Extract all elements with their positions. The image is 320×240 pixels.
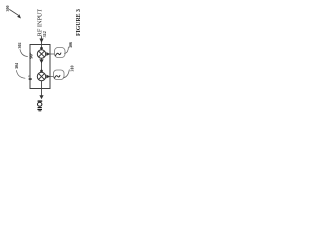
leader curve 304 [17,71,26,79]
RF input wire [41,37,43,46]
waveform box lower output [54,70,65,80]
M2 output arrowhead [46,75,50,79]
svg-text:FIGURE 3: FIGURE 3 [76,9,82,36]
leader curve 302 [20,50,28,57]
waveform squiggle lower [55,75,60,78]
waveform squiggle upper [56,53,61,56]
mixer block outline [30,45,50,89]
LO output arrowhead [39,95,43,99]
svg-text:300: 300 [5,6,10,12]
leader to numeral 310 [64,70,70,78]
leader to numeral 306 [65,47,69,54]
svg-text:306: 306 [68,42,73,48]
waveform box upper output [55,48,66,58]
LO chain wire [41,45,43,96]
mixer M1 [37,50,45,58]
LO label [37,100,42,111]
RF input arrowhead [39,39,43,43]
output wire lower [50,76,54,78]
mixer M2 [37,72,45,80]
junction node B [40,70,43,73]
svg-text:0°: 0° [29,75,34,80]
svg-text:90°: 90° [29,52,34,59]
M1 output arrowhead [46,52,50,56]
junction node A [40,47,43,50]
svg-text:304: 304 [14,63,19,69]
svg-text:312: 312 [42,31,47,37]
leader arrow from 300 to block [10,10,19,16]
svg-text:302: 302 [17,43,22,49]
down arrow between mixers [39,59,43,63]
svg-text:310: 310 [70,66,75,72]
output wire upper [50,53,55,55]
